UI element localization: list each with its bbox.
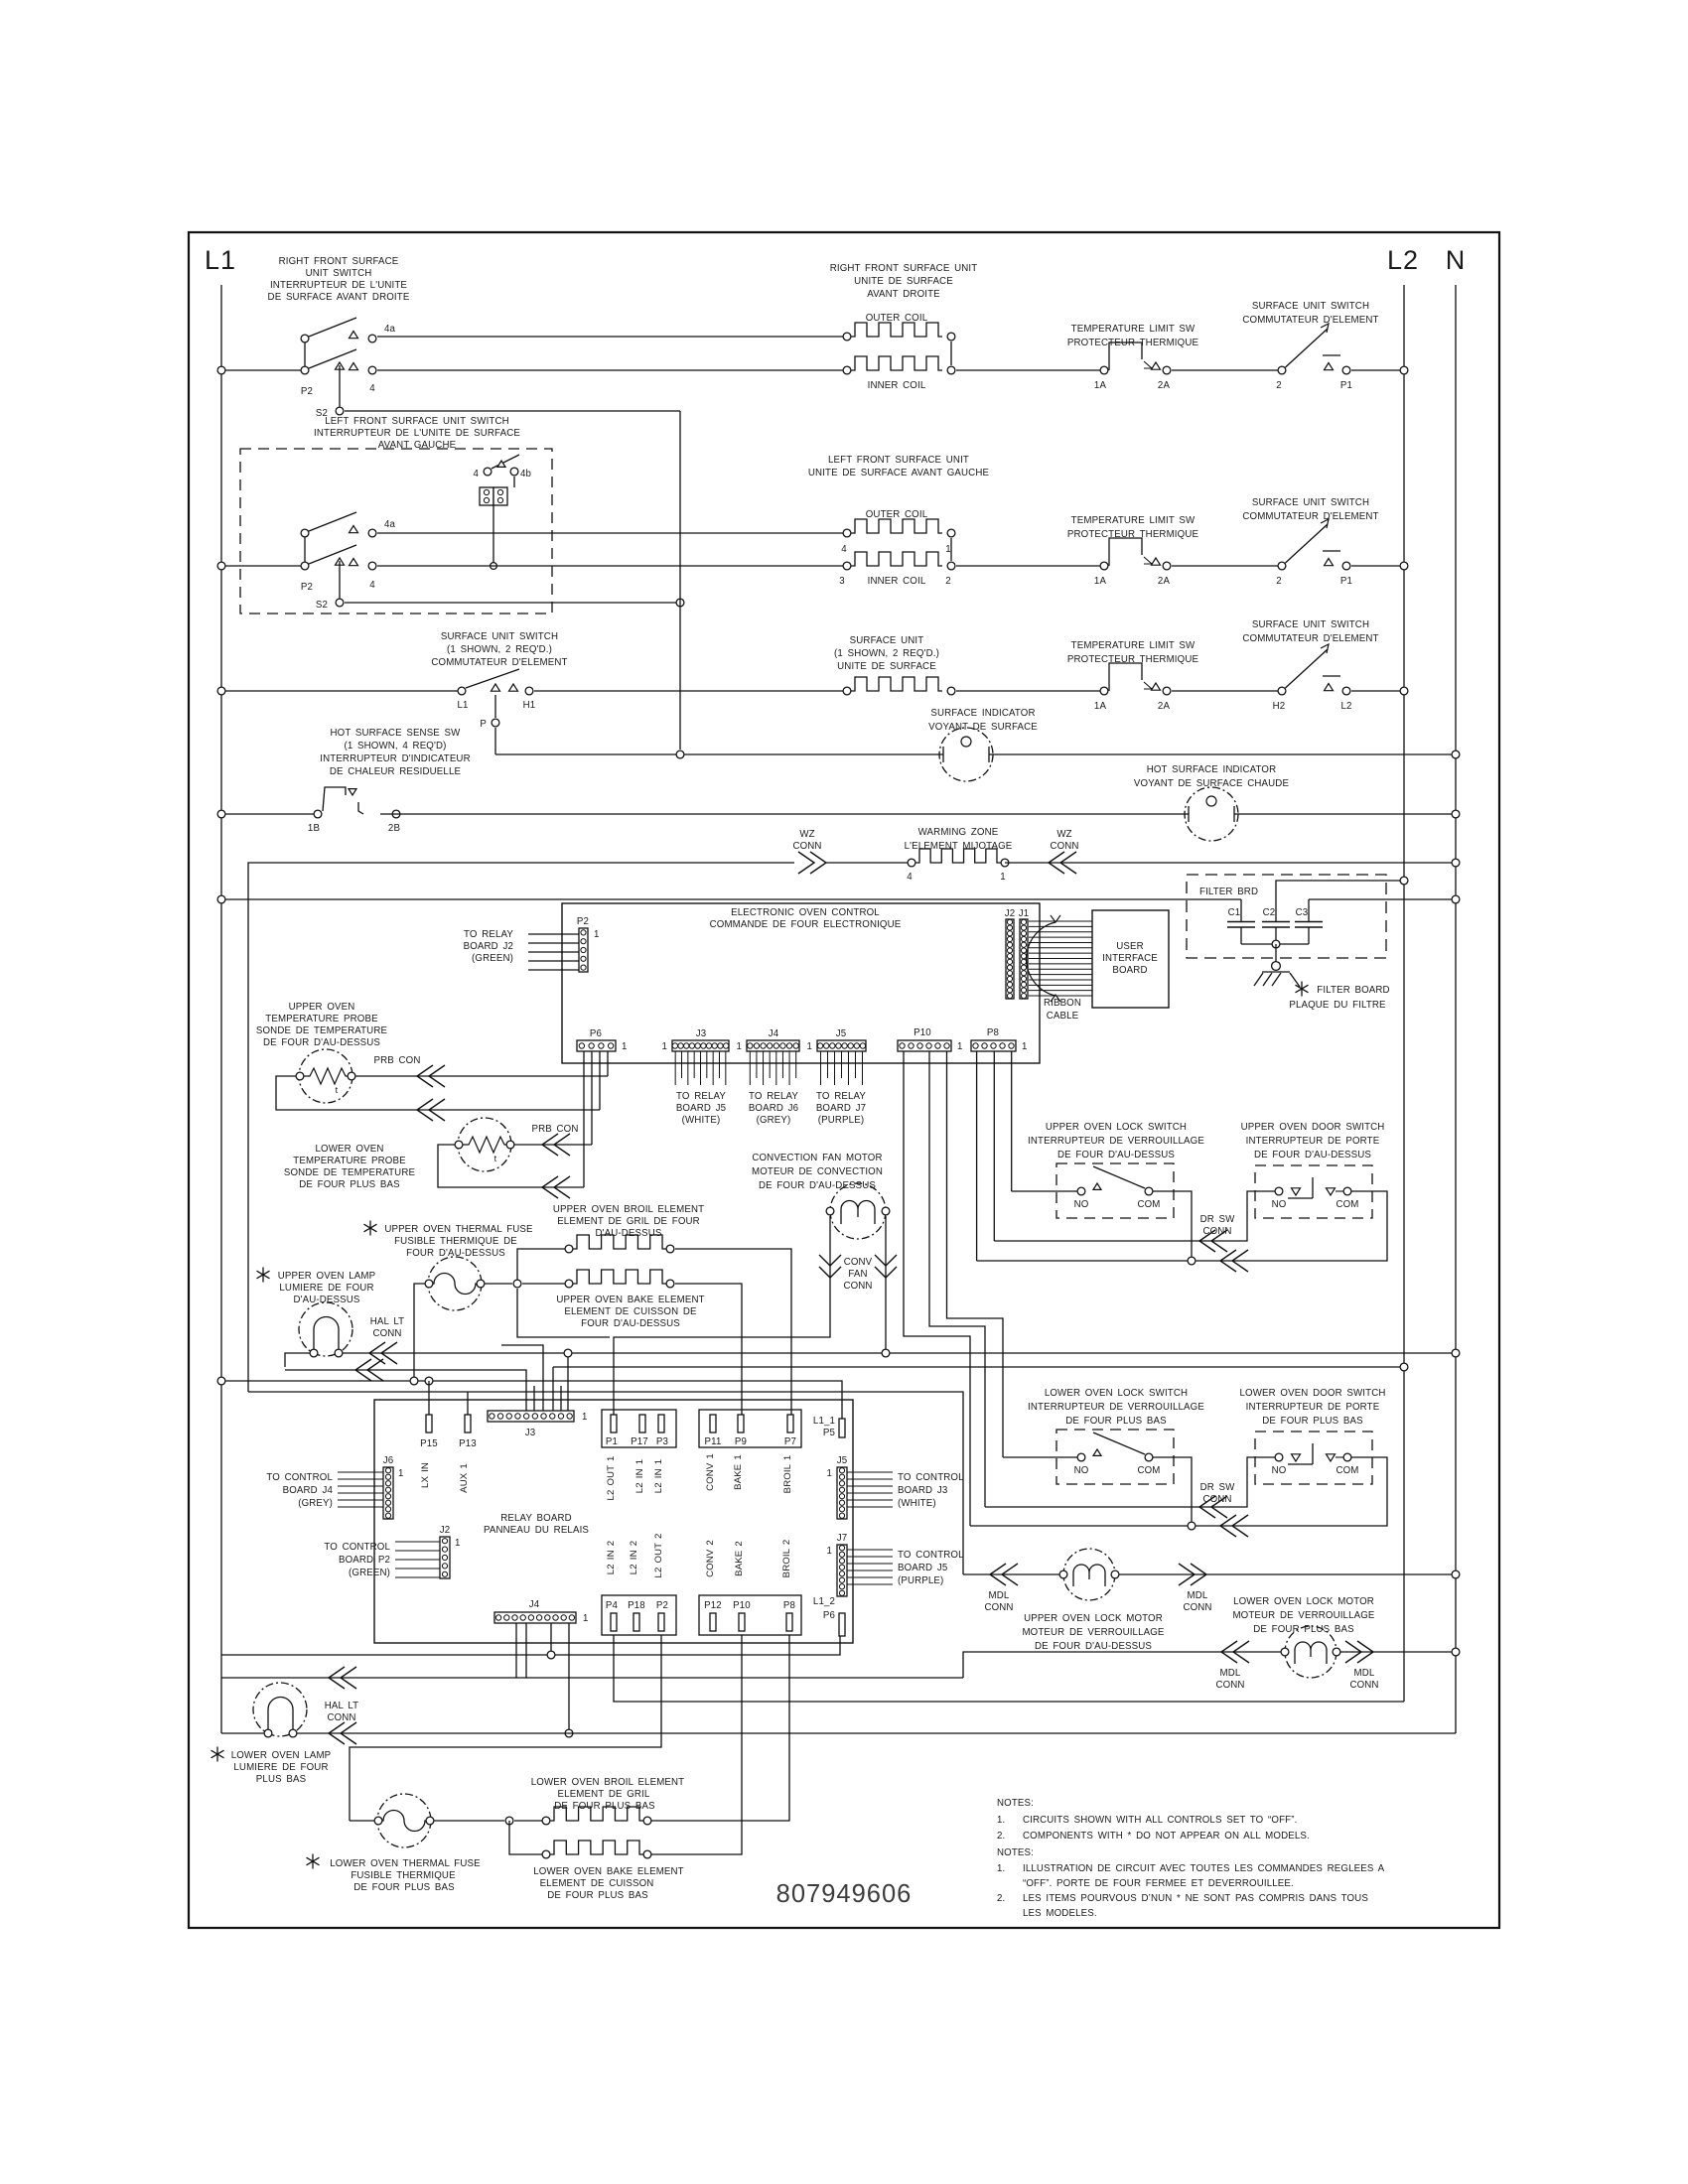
switch hot surface sense sw — [221, 728, 471, 834]
switch lower oven door switch — [1239, 1388, 1385, 1484]
svg-text:NOTES:: NOTES: — [997, 1798, 1034, 1809]
wire common drop to ground — [1275, 944, 1277, 962]
svg-text:P1: P1 — [1340, 576, 1352, 587]
svg-text:CONN: CONN — [1215, 1680, 1244, 1691]
svg-text:C3: C3 — [1296, 907, 1309, 918]
svg-text:P2: P2 — [301, 386, 313, 397]
svg-text:P1: P1 — [606, 1436, 618, 1447]
svg-text:ILLUSTRATION DE CIRCUIT AVEC T: ILLUSTRATION DE CIRCUIT AVEC TOUTES LES … — [1023, 1863, 1385, 1874]
wire row1 upper contact to outer coil — [377, 336, 847, 338]
svg-text:PRB CON: PRB CON — [374, 1055, 421, 1066]
pin P13 AUX 1 — [459, 1415, 477, 1493]
wire J7 leads — [847, 1550, 893, 1584]
svg-text:C1: C1 — [1228, 907, 1241, 918]
svg-text:J5: J5 — [837, 1455, 848, 1466]
svg-text:SURFACE UNIT: SURFACE UNIT — [850, 635, 924, 646]
svg-text:INTERFACE: INTERFACE — [1102, 953, 1158, 964]
svg-text:L2 IN 1: L2 IN 1 — [634, 1459, 645, 1493]
svg-text:CONN: CONN — [1050, 841, 1078, 852]
wire P8 pin5 drop to upper lock NO — [1011, 1051, 1013, 1191]
svg-text:1B: 1B — [308, 823, 320, 834]
pin P15 LX IN — [420, 1415, 438, 1488]
svg-text:(WHITE): (WHITE) — [898, 1498, 936, 1509]
wire warming zone feed from relay L1_1 — [248, 863, 794, 1392]
label to control board P2 green — [324, 1542, 390, 1578]
svg-text:P: P — [480, 719, 487, 730]
svg-text:FOUR D'AU-DESSUS: FOUR D'AU-DESSUS — [581, 1318, 680, 1329]
wire lamp row 1746 to N — [297, 1732, 1456, 1734]
heater element warming zone — [905, 827, 1013, 883]
motor convection fan motor — [752, 1153, 890, 1239]
wire lamp supply row 1363 left hook — [285, 1353, 310, 1367]
wire lower fuse left stub — [350, 1820, 374, 1822]
wire lamp return row 1380 to J3 — [285, 1370, 526, 1411]
svg-text:S2: S2 — [316, 600, 328, 611]
connector block P11 P9 P7 — [699, 1410, 801, 1493]
svg-text:P6: P6 — [590, 1028, 602, 1039]
svg-text:P10: P10 — [914, 1027, 931, 1038]
svg-text:(1 SHOWN, 2 REQ'D.): (1 SHOWN, 2 REQ'D.) — [447, 644, 552, 655]
wire L1 to filter board C1 — [221, 898, 1241, 900]
svg-text:N: N — [1446, 245, 1467, 275]
junction J4 row 1746 — [565, 1729, 573, 1737]
svg-text:RIGHT FRONT SURFACE UNIT: RIGHT FRONT SURFACE UNIT — [830, 263, 978, 274]
svg-text:2A: 2A — [1158, 380, 1171, 391]
svg-text:L2 IN 1: L2 IN 1 — [653, 1459, 664, 1493]
svg-text:CONV 1: CONV 1 — [705, 1453, 716, 1491]
svg-text:UNIT SWITCH: UNIT SWITCH — [306, 268, 372, 279]
switch surface unit switch row2 — [1242, 497, 1378, 587]
connector HAL LT CONN lower return — [329, 1722, 356, 1744]
svg-text:1: 1 — [622, 1041, 628, 1052]
svg-text:UNITE DE SURFACE: UNITE DE SURFACE — [854, 276, 953, 287]
wire N bus — [1455, 285, 1457, 1733]
junction N upper lock motor — [1452, 1570, 1460, 1578]
wire lamp supply row 1363 to N — [343, 1352, 1456, 1354]
connector P8 (EOC) — [971, 1027, 1028, 1052]
svg-text:VOYANT DE SURFACE CHAUDE: VOYANT DE SURFACE CHAUDE — [1134, 778, 1290, 789]
svg-text:2: 2 — [1276, 380, 1282, 391]
wire AUX row 1402 — [248, 1392, 963, 1574]
svg-text:WZ: WZ — [1056, 829, 1071, 840]
svg-text:P6: P6 — [823, 1610, 835, 1621]
IC relay board — [374, 1400, 853, 1643]
svg-text:CABLE: CABLE — [1047, 1011, 1079, 1022]
svg-text:SURFACE UNIT SWITCH: SURFACE UNIT SWITCH — [1252, 619, 1369, 630]
wire row3 to L2 — [1351, 690, 1404, 692]
svg-text:SURFACE UNIT SWITCH: SURFACE UNIT SWITCH — [1252, 301, 1369, 312]
svg-text:1.: 1. — [997, 1863, 1005, 1874]
svg-text:INTERRUPTEUR DE L'UNITE DE SUR: INTERRUPTEUR DE L'UNITE DE SURFACE — [314, 428, 520, 439]
svg-text:HAL LT: HAL LT — [325, 1701, 358, 1711]
connector block P12 P10 P8 — [699, 1540, 801, 1635]
svg-text:L2 OUT 2: L2 OUT 2 — [653, 1533, 664, 1577]
svg-text:LOWER OVEN DOOR SWITCH: LOWER OVEN DOOR SWITCH — [1239, 1388, 1385, 1399]
capacitor C3 — [1295, 899, 1323, 944]
svg-text:J2: J2 — [1005, 908, 1016, 919]
svg-text:NO: NO — [1272, 1199, 1287, 1210]
svg-text:LX IN: LX IN — [420, 1462, 431, 1488]
svg-text:L2: L2 — [1387, 245, 1419, 275]
svg-text:(GREY): (GREY) — [757, 1115, 791, 1126]
wire P8 pin1 drop to upper com — [976, 1051, 978, 1261]
svg-text:t: t — [494, 1154, 497, 1163]
wire aux to upper lock motor — [963, 1573, 1059, 1575]
svg-text:1: 1 — [945, 544, 951, 555]
wire upper lock COM down — [1153, 1191, 1192, 1257]
svg-text:(PURPLE): (PURPLE) — [818, 1115, 864, 1126]
wire lower lock COM down — [1153, 1457, 1192, 1522]
junction row1363 conv fan — [882, 1349, 890, 1357]
wire C3 to N — [1309, 898, 1456, 900]
svg-text:COMMANDE DE FOUR ELECTRONIQUE: COMMANDE DE FOUR ELECTRONIQUE — [710, 919, 902, 930]
svg-text:D'AU-DESSUS: D'AU-DESSUS — [595, 1228, 661, 1239]
label to control board J3 white — [898, 1472, 964, 1509]
wire upper door COM loop — [977, 1191, 1387, 1261]
wire row2 coil to limit switch — [956, 565, 1104, 567]
svg-text:DE FOUR D'AU-DESSUS: DE FOUR D'AU-DESSUS — [1057, 1150, 1175, 1160]
svg-text:TEMPERATURE LIMIT SW: TEMPERATURE LIMIT SW — [1071, 324, 1196, 335]
svg-text:BOARD P2: BOARD P2 — [339, 1555, 390, 1566]
svg-text:BAKE 1: BAKE 1 — [733, 1454, 744, 1490]
svg-text:TO RELAY: TO RELAY — [816, 1091, 866, 1102]
label to relay board J6 grey — [749, 1091, 799, 1126]
svg-text:TEMPERATURE PROBE: TEMPERATURE PROBE — [265, 1014, 378, 1024]
svg-text:1: 1 — [826, 1546, 832, 1557]
svg-text:(GREY): (GREY) — [298, 1498, 333, 1509]
thermostat temperature limit sw row3 — [1067, 640, 1199, 712]
connector PRB CON lower — [532, 1124, 579, 1156]
svg-text:BOARD J5: BOARD J5 — [898, 1563, 947, 1573]
svg-text:TO CONTROL: TO CONTROL — [898, 1550, 964, 1561]
wire S2 row1 to junction — [345, 410, 680, 412]
svg-text:L1_2: L1_2 — [813, 1596, 835, 1607]
svg-text:P18: P18 — [628, 1600, 645, 1611]
svg-text:LUMIERE DE FOUR: LUMIERE DE FOUR — [279, 1283, 373, 1294]
svg-text:MDL: MDL — [1188, 1590, 1208, 1601]
svg-text:INTERRUPTEUR DE L'UNITE: INTERRUPTEUR DE L'UNITE — [270, 280, 407, 291]
switch S1 right front surface unit switch — [221, 256, 410, 397]
svg-text:(WHITE): (WHITE) — [682, 1115, 721, 1126]
connector PRB CON upper — [374, 1055, 446, 1087]
switch surface unit switch row1 — [1242, 301, 1378, 391]
border frame — [189, 232, 1499, 1928]
heater element left front surface unit outer coil — [808, 455, 990, 555]
svg-text:TO RELAY: TO RELAY — [676, 1091, 726, 1102]
svg-text:BOARD J2: BOARD J2 — [464, 941, 513, 952]
svg-text:BROIL 1: BROIL 1 — [782, 1455, 793, 1494]
svg-text:MOTEUR DE VERROUILLAGE: MOTEUR DE VERROUILLAGE — [1232, 1610, 1374, 1621]
svg-text:J3: J3 — [525, 1428, 536, 1438]
wire J4 drop to row1746 — [568, 1623, 570, 1729]
svg-text:P2: P2 — [301, 582, 313, 593]
svg-text:P8: P8 — [987, 1027, 999, 1038]
connector J5 (relay board) — [826, 1455, 847, 1519]
wire wz conn to element — [826, 862, 912, 864]
svg-text:ELEMENT DE CUISSON DE: ELEMENT DE CUISSON DE — [564, 1306, 697, 1317]
junction L2 row2 — [1400, 562, 1408, 570]
svg-text:1: 1 — [594, 929, 600, 940]
svg-text:(1 SHOWN, 4 REQ'D): (1 SHOWN, 4 REQ'D) — [344, 741, 446, 751]
svg-text:L2 IN 2: L2 IN 2 — [606, 1541, 617, 1574]
svg-text:1: 1 — [661, 1041, 667, 1052]
heater element right front surface unit inner coil — [843, 341, 955, 391]
wire row3 switch to coil — [534, 690, 847, 692]
svg-text:DE FOUR D'AU-DESSUS: DE FOUR D'AU-DESSUS — [263, 1037, 380, 1048]
wire P row to indicator — [495, 753, 943, 755]
svg-text:“OFF”. PORTE DE FOUR FERMEE ET: “OFF”. PORTE DE FOUR FERMEE ET DEVERROUI… — [1023, 1878, 1294, 1889]
connector CONV FAN CONN left — [819, 1255, 841, 1278]
svg-text:DE FOUR PLUS BAS: DE FOUR PLUS BAS — [547, 1890, 648, 1901]
svg-text:(1 SHOWN, 2 REQ'D.): (1 SHOWN, 2 REQ'D.) — [834, 648, 939, 659]
heater element left front surface unit inner coil — [839, 538, 955, 587]
svg-text:TO CONTROL: TO CONTROL — [324, 1542, 390, 1553]
connector MDL CONN upper left — [984, 1564, 1018, 1613]
svg-text:1A: 1A — [1094, 576, 1107, 587]
connector HAL LT CONN upper return — [355, 1359, 383, 1381]
wire P8 to upper lock NO — [1012, 1190, 1077, 1192]
svg-text:1A: 1A — [1094, 380, 1107, 391]
svg-text:DE CHALEUR RESIDUELLE: DE CHALEUR RESIDUELLE — [330, 766, 462, 777]
motor upper oven lock motor — [1022, 1549, 1164, 1652]
svg-text:J1: J1 — [1019, 908, 1030, 919]
svg-text:4b: 4b — [520, 469, 531, 479]
connector J6 (relay board) — [383, 1455, 404, 1519]
svg-text:MOTEUR DE VERROUILLAGE: MOTEUR DE VERROUILLAGE — [1022, 1627, 1164, 1638]
label to relay board J5 white — [676, 1091, 727, 1126]
junction row1363 J3 tap — [564, 1349, 572, 1357]
svg-text:P12: P12 — [704, 1600, 722, 1611]
wire row1 coil to limit switch — [956, 369, 1104, 371]
box filter board (dashed) — [1187, 875, 1386, 958]
svg-text:P8: P8 — [783, 1600, 795, 1611]
connector J2 (relay board) — [440, 1525, 461, 1578]
wire row2 limit sw to switch — [1172, 565, 1282, 567]
svg-text:4: 4 — [369, 580, 375, 591]
wire P10 pin4 drop to lower door NO — [929, 1051, 985, 1507]
junction capacitor common — [1272, 940, 1280, 948]
svg-text:BOARD J7: BOARD J7 — [816, 1103, 866, 1114]
svg-text:BOARD J6: BOARD J6 — [749, 1103, 798, 1114]
svg-text:1: 1 — [582, 1412, 588, 1423]
svg-text:AVANT DROITE: AVANT DROITE — [867, 289, 940, 300]
wire J2 leads — [395, 1542, 440, 1577]
svg-text:L2 OUT 1: L2 OUT 1 — [606, 1455, 617, 1500]
switch surface unit switch (1 shown 2 reqd) — [221, 631, 568, 711]
wire sense sw to hot surface indicator — [380, 813, 1189, 815]
wire L1 bus — [220, 285, 222, 1733]
connector J3 (relay board) — [488, 1411, 588, 1438]
IC user interface board — [1092, 910, 1169, 1008]
svg-text:CIRCUITS SHOWN WITH ALL CONTRO: CIRCUITS SHOWN WITH ALL CONTROLS SET TO … — [1023, 1815, 1297, 1826]
svg-text:2B: 2B — [388, 823, 400, 834]
svg-text:1: 1 — [1022, 1041, 1028, 1052]
svg-text:LOWER OVEN LOCK SWITCH: LOWER OVEN LOCK SWITCH — [1045, 1388, 1188, 1399]
junction L1 row1 — [217, 366, 225, 374]
svg-text:NO: NO — [1074, 1199, 1089, 1210]
svg-text:P1: P1 — [1340, 380, 1352, 391]
svg-text:P2: P2 — [656, 1600, 668, 1611]
connector DR SW CONN lower NO — [1199, 1496, 1227, 1518]
connector WZ CONN left — [792, 829, 826, 874]
label to relay board J2 green — [464, 929, 514, 964]
wire row3 coil to limit sw — [956, 690, 1104, 692]
svg-text:NO: NO — [1074, 1465, 1089, 1476]
label to control board J4 grey — [266, 1472, 333, 1509]
junction N row 1363 — [1452, 1349, 1460, 1357]
wire P10 pin6 drop to lower lock NO — [947, 1051, 1004, 1457]
wire P8 pin3 drop to upper door NO — [993, 1051, 995, 1241]
junction N row 869 — [1452, 859, 1460, 867]
svg-text:NOTES:: NOTES: — [997, 1847, 1034, 1858]
wire upper probe return — [276, 1076, 600, 1110]
svg-text:COMMUTATEUR D'ELEMENT: COMMUTATEUR D'ELEMENT — [1242, 511, 1378, 522]
junction N row 906 — [1452, 895, 1460, 903]
wire J4 drop to row1667 — [550, 1623, 552, 1651]
svg-text:J2: J2 — [440, 1525, 451, 1536]
svg-text:H1: H1 — [523, 700, 536, 711]
junction upper lock COM — [1188, 1257, 1196, 1265]
svg-text:INTERRUPTEUR DE PORTE: INTERRUPTEUR DE PORTE — [1246, 1402, 1380, 1413]
connector J3 (EOC) — [661, 1028, 729, 1052]
svg-text:2: 2 — [1276, 576, 1282, 587]
svg-text:1: 1 — [455, 1538, 461, 1549]
svg-text:FUSIBLE THERMIQUE: FUSIBLE THERMIQUE — [351, 1870, 456, 1881]
wire P10 pin1 drop to lower com — [904, 1051, 970, 1526]
resistor lower oven temperature probe — [284, 1118, 514, 1190]
svg-text:P11: P11 — [705, 1436, 722, 1447]
wire upper probe to P6 pin1 — [355, 1075, 608, 1077]
switch S2 left front surface unit switch — [221, 416, 552, 614]
svg-text:807949606: 807949606 — [776, 1880, 913, 1908]
svg-text:DE FOUR PLUS BAS: DE FOUR PLUS BAS — [299, 1179, 400, 1190]
svg-text:2.: 2. — [997, 1831, 1005, 1842]
junction J4 row 1667 — [547, 1651, 555, 1659]
svg-text:1.: 1. — [997, 1815, 1005, 1826]
svg-text:UPPER OVEN: UPPER OVEN — [289, 1002, 355, 1013]
connector PRB CON upper return — [417, 1099, 445, 1121]
wire lower lock motor to N — [1340, 1651, 1456, 1653]
svg-text:SONDE DE TEMPERATURE: SONDE DE TEMPERATURE — [256, 1025, 388, 1036]
svg-text:INTERRUPTEUR D'INDICATEUR: INTERRUPTEUR D'INDICATEUR — [320, 753, 470, 764]
wire L1_2 row 1667 — [221, 1636, 840, 1655]
ribbon cable — [1027, 915, 1092, 1022]
svg-text:1: 1 — [806, 1041, 812, 1052]
svg-text:CONV 2: CONV 2 — [705, 1540, 716, 1577]
svg-text:2A: 2A — [1158, 701, 1171, 712]
svg-text:4: 4 — [473, 469, 479, 479]
svg-text:L2: L2 — [1340, 701, 1351, 712]
wire J3 pin from row1363 — [567, 1357, 569, 1411]
wire row2 upper contact to outer coil — [377, 532, 847, 534]
connector J5 (EOC) — [806, 1028, 866, 1052]
wire broil to P7 — [675, 1249, 791, 1415]
lamp lower oven lamp — [211, 1683, 332, 1785]
junction S2 drop at row 760 — [676, 751, 684, 758]
svg-text:CONVECTION FAN MOTOR: CONVECTION FAN MOTOR — [752, 1153, 882, 1163]
ground chassis symbol filter board — [1254, 962, 1300, 987]
svg-text:COM: COM — [1137, 1199, 1160, 1210]
heater element lower oven broil element — [514, 1777, 684, 1825]
svg-text:2A: 2A — [1158, 576, 1171, 587]
svg-text:DE SURFACE AVANT DROITE: DE SURFACE AVANT DROITE — [268, 292, 410, 303]
svg-text:LEFT FRONT SURFACE UNIT SWITCH: LEFT FRONT SURFACE UNIT SWITCH — [325, 416, 509, 427]
svg-text:1: 1 — [957, 1041, 963, 1052]
wire lower door NO loop — [985, 1457, 1275, 1507]
svg-text:SURFACE INDICATOR: SURFACE INDICATOR — [930, 708, 1035, 719]
svg-text:SURFACE UNIT SWITCH: SURFACE UNIT SWITCH — [441, 631, 558, 642]
connector HAL LT CONN lower supply — [329, 1667, 356, 1689]
wire J6 leads — [338, 1472, 383, 1507]
svg-text:USER: USER — [1116, 941, 1144, 952]
svg-text:UNITE DE SURFACE: UNITE DE SURFACE — [837, 661, 936, 672]
connector J7 (relay board) — [826, 1533, 847, 1596]
svg-text:COM: COM — [1336, 1199, 1358, 1210]
svg-text:PLUS BAS: PLUS BAS — [256, 1774, 307, 1785]
wire conv fan left to P1 — [614, 1216, 830, 1415]
svg-text:J7: J7 — [837, 1533, 848, 1544]
label filter board ground — [1289, 982, 1389, 1012]
svg-text:INNER COIL: INNER COIL — [868, 380, 926, 391]
svg-text:P13: P13 — [459, 1438, 477, 1449]
junction fuse drop row 1391 — [410, 1377, 418, 1385]
svg-text:HOT SURFACE SENSE SW: HOT SURFACE SENSE SW — [331, 728, 462, 739]
svg-text:TO CONTROL: TO CONTROL — [266, 1472, 333, 1483]
svg-text:L1: L1 — [457, 700, 468, 711]
svg-text:RELAY BOARD: RELAY BOARD — [500, 1513, 571, 1524]
junction L1 row2 — [217, 562, 225, 570]
svg-text:1: 1 — [583, 1613, 589, 1624]
svg-text:TEMPERATURE LIMIT SW: TEMPERATURE LIMIT SW — [1071, 640, 1196, 651]
svg-text:FILTER BRD: FILTER BRD — [1199, 887, 1258, 897]
resistor upper oven temperature probe — [256, 1002, 388, 1103]
wire row1690 to lower lock motor — [963, 1652, 1281, 1678]
svg-text:UPPER OVEN THERMAL FUSE: UPPER OVEN THERMAL FUSE — [384, 1224, 533, 1235]
svg-text:(PURPLE): (PURPLE) — [898, 1575, 943, 1586]
svg-text:INTERRUPTEUR DE VERROUILLAGE: INTERRUPTEUR DE VERROUILLAGE — [1028, 1402, 1204, 1413]
svg-text:COM: COM — [1336, 1465, 1358, 1476]
switch surface unit switch row3 right — [1242, 619, 1378, 712]
svg-text:TEMPERATURE PROBE: TEMPERATURE PROBE — [293, 1156, 406, 1166]
svg-text:HOT SURFACE INDICATOR: HOT SURFACE INDICATOR — [1147, 764, 1277, 775]
label HAL LT CONN lower — [325, 1701, 358, 1723]
wire capacitor common bus — [1241, 943, 1309, 945]
junction L1 row3 — [217, 687, 225, 695]
wire row3 limit sw to switch — [1172, 690, 1282, 692]
svg-text:BOARD J4: BOARD J4 — [283, 1485, 334, 1496]
svg-text:TEMPERATURE LIMIT SW: TEMPERATURE LIMIT SW — [1071, 515, 1196, 526]
wire warming zone to N — [1005, 862, 1456, 864]
svg-text:MDL: MDL — [1220, 1668, 1241, 1679]
svg-text:DR SW: DR SW — [1200, 1482, 1236, 1493]
heater element right front surface unit outer coil — [830, 263, 978, 341]
lamp upper oven lamp — [257, 1268, 376, 1357]
thermostat temperature limit sw row2 — [1067, 515, 1199, 587]
svg-text:DE FOUR D'AU-DESSUS: DE FOUR D'AU-DESSUS — [1035, 1641, 1152, 1652]
svg-text:(GREEN): (GREEN) — [472, 953, 513, 964]
junction L1 row 906 — [217, 895, 225, 903]
svg-text:RIGHT FRONT SURFACE: RIGHT FRONT SURFACE — [279, 256, 399, 267]
wire row1 lower contact to inner coil — [377, 369, 847, 371]
svg-text:ELEMENT DE GRIL DE FOUR: ELEMENT DE GRIL DE FOUR — [557, 1216, 700, 1227]
connector HAL LT CONN upper supply — [369, 1316, 404, 1364]
svg-text:4: 4 — [369, 383, 375, 394]
wire P13 drop — [467, 1392, 469, 1415]
switch aux contact 4-4b left front — [473, 455, 531, 487]
svg-text:DE FOUR PLUS BAS: DE FOUR PLUS BAS — [1262, 1416, 1363, 1427]
svg-text:P17: P17 — [631, 1436, 648, 1447]
junction L2 row3 — [1400, 687, 1408, 695]
